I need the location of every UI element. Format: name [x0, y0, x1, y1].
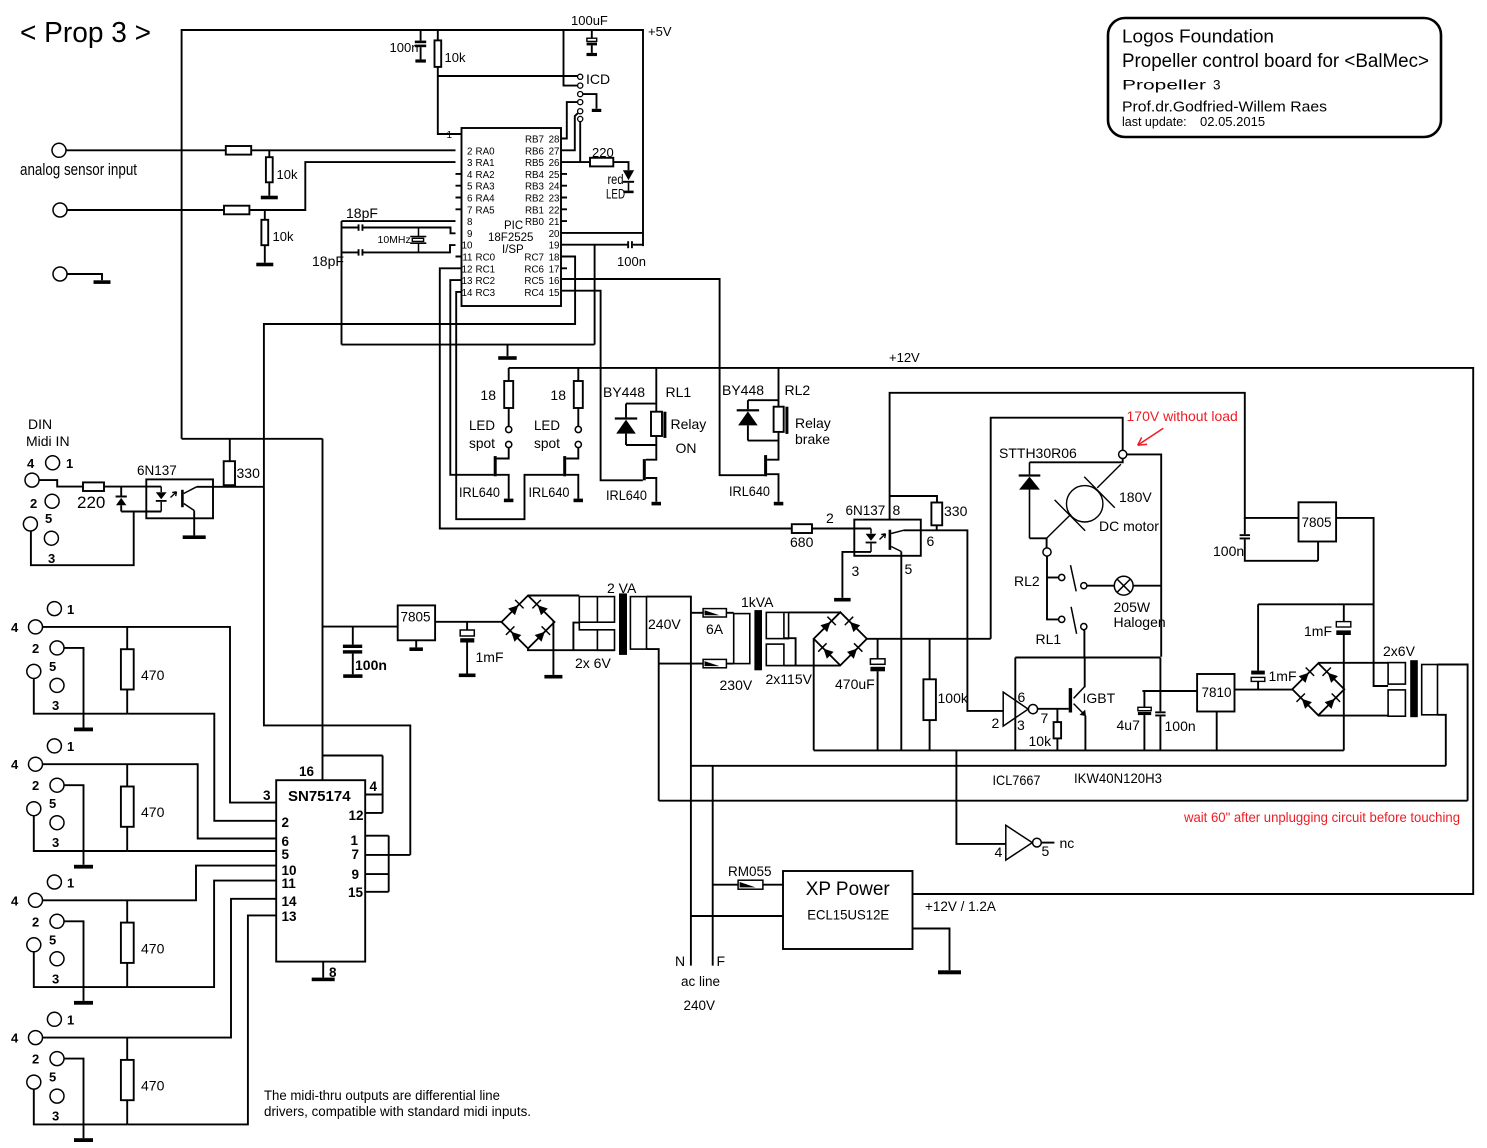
ground bar Q4 source [774, 502, 784, 506]
svg-text:ECL15US12E: ECL15US12E [807, 907, 889, 923]
wire R2 to PIC pin 3 [249, 162, 455, 210]
svg-text:7: 7 [352, 847, 360, 862]
wire PIC pin 20 Vdd [561, 232, 643, 234]
ground bar U2 emitter [183, 535, 206, 539]
svg-text:15: 15 [348, 885, 364, 900]
svg-text:ICL7667: ICL7667 [993, 772, 1041, 788]
arrow to 170V node [1138, 428, 1164, 445]
wire DIN-OUT2 pad2 to ground [64, 785, 84, 865]
svg-text:10: 10 [462, 241, 473, 252]
svg-text:1: 1 [67, 1013, 74, 1028]
svg-text:13: 13 [462, 276, 473, 287]
svg-text:25: 25 [549, 170, 560, 181]
svg-text:RC3: RC3 [476, 288, 496, 299]
resistor 10k R5 bottom stem [264, 245, 266, 263]
svg-text:2: 2 [32, 778, 39, 793]
ground bar U3 [409, 647, 423, 651]
wire fuse F1 feed [691, 612, 703, 614]
wire U2 Vo to RX net [197, 486, 264, 488]
svg-text:RC7: RC7 [524, 253, 544, 264]
wire PIC pin 13 RC2 to Q1 gate [450, 280, 494, 475]
svg-text:3: 3 [52, 1109, 59, 1124]
wire DIN-OUT3 pad5 line [34, 952, 127, 987]
svg-text:8: 8 [893, 502, 901, 518]
svg-text:180V: 180V [1119, 489, 1152, 505]
svg-text:IRL640: IRL640 [459, 484, 500, 500]
wire Q1 source to ground [497, 475, 509, 499]
ground bar DIN-OUT2 [74, 865, 93, 869]
wire MCLR to ICD pin1 [438, 75, 578, 77]
svg-text:RM055: RM055 [728, 864, 772, 879]
svg-text:100n: 100n [617, 254, 646, 269]
capacitor 4u7 top stem [1143, 691, 1145, 707]
svg-text:8: 8 [467, 217, 473, 228]
svg-text:last update:: last update: [1122, 115, 1187, 129]
svg-text:2: 2 [992, 715, 1000, 731]
capacitor 1mF C6 plates [460, 630, 474, 643]
connector DIN-OUT4 pad 4 [29, 1031, 43, 1045]
capacitor 1mF C9 plates [1336, 622, 1351, 635]
wire C4 to +5V [633, 244, 643, 246]
wire U4 pin5 down [900, 552, 902, 751]
svg-text:2 VA: 2 VA [607, 580, 637, 596]
ground bar DIN-OUT1 [74, 728, 93, 732]
resistor 10k R14 stems [1056, 709, 1058, 751]
connector DIN-OUT4 pad 3 [50, 1089, 64, 1103]
wire B2 minus to DC- rail [813, 639, 815, 751]
transformer T1 core [619, 593, 627, 655]
wire DIN-OUT1 pad5 to U9 pin 2 [127, 714, 276, 821]
connector DIN-OUT3 pad 1 [47, 875, 61, 889]
ICD pad 2 [578, 83, 583, 88]
svg-text:The midi-thru outputs are diff: The midi-thru outputs are differential l… [264, 1088, 500, 1103]
capacitor 100n C4 plates [627, 241, 633, 248]
transistor Q1 IRL640 bar [494, 456, 497, 476]
svg-text:470: 470 [141, 667, 165, 683]
ground bar U4 pin3 [834, 598, 851, 602]
svg-text:RB1: RB1 [525, 205, 544, 216]
svg-text:4u7: 4u7 [1117, 717, 1141, 733]
wire ICD pad6 to PIC pin 26 [579, 122, 581, 163]
node motor bottom [1043, 548, 1051, 556]
wire DIN-OUT1 pad5 line [34, 678, 127, 713]
svg-text:Propeller: Propeller [1122, 77, 1207, 92]
svg-text:13: 13 [282, 909, 298, 924]
wire B3 ac bottom to T3 [1318, 715, 1388, 717]
svg-text:7: 7 [467, 205, 472, 216]
svg-text:470: 470 [141, 1078, 165, 1094]
svg-text:RB4: RB4 [525, 170, 545, 181]
ground bar below PIC [498, 356, 517, 360]
opto U2 light arrow [171, 492, 177, 498]
connector DIN-OUT1 pad 4 [29, 620, 43, 634]
svg-text:11: 11 [462, 253, 472, 264]
wire lamp to motor right [1133, 585, 1161, 587]
connector DIN-OUT4 pad 1 [47, 1012, 61, 1026]
wire 18pF left rail [341, 221, 343, 345]
wire D3 bottom to RL2 coil [748, 440, 779, 442]
svg-text:21: 21 [549, 217, 560, 228]
ground bar DIN-OUT3 [74, 1001, 93, 1005]
contact RL2 blade [1071, 565, 1077, 591]
wire U4 Vo to ICL7667 input [904, 530, 1004, 711]
svg-text:+12V: +12V [889, 350, 920, 365]
diode D4 stems [120, 487, 122, 512]
svg-text:14: 14 [282, 894, 298, 909]
svg-text:18: 18 [480, 387, 496, 403]
wire B3 ac top to T3 [1318, 662, 1388, 664]
IC U1 PIC18F2525 body [462, 128, 562, 306]
svg-text:23: 23 [549, 194, 560, 205]
capacitor 100n C1 stem [420, 30, 422, 41]
wire DIN-OUT4 pad2 to ground [64, 1059, 84, 1139]
svg-text:RL1: RL1 [1036, 631, 1062, 647]
svg-text:XP Power: XP Power [806, 879, 891, 900]
wire R9 to opto LED [104, 486, 161, 488]
connector DIN-IN pad 3 [44, 531, 58, 545]
PIC unconnected pin stubs [456, 174, 568, 268]
resistor 18 R8 top stem [577, 368, 579, 381]
svg-text:Relay: Relay [795, 415, 831, 431]
svg-text:RA5: RA5 [476, 205, 496, 216]
wire U4 pin3 to ground [842, 552, 871, 598]
svg-text:3: 3 [467, 158, 473, 169]
svg-text:22: 22 [549, 205, 560, 216]
wire RM055 feed [713, 884, 738, 886]
ground bar Q1 source [504, 499, 514, 503]
wire nc inverter input [956, 750, 1005, 844]
svg-text:3: 3 [52, 835, 59, 850]
opto U2 LED [156, 487, 167, 512]
svg-text:5: 5 [905, 561, 913, 577]
svg-text:12: 12 [462, 264, 473, 275]
wire PIC pin 16 RC5 to Q4 gate [561, 279, 764, 475]
wire DIN-OUT1 pad4 to U9 pin 3 [43, 627, 277, 803]
resistor 470 body DIN-OUT1 [121, 649, 134, 689]
svg-text:27: 27 [549, 146, 560, 157]
wire B1 minus to ground [552, 621, 554, 675]
wire RL2 contact feed [1047, 577, 1059, 579]
resistor 10k R4 top stem [268, 150, 270, 157]
contact RL2 terminal b [1081, 583, 1087, 589]
connector DIN-IN pad 5 [23, 517, 37, 531]
svg-text:N: N [675, 953, 685, 969]
wire RM055 to XP [763, 884, 783, 886]
fuse F2 6A [703, 659, 726, 667]
svg-text:RA3: RA3 [476, 182, 496, 193]
wire DIN-OUT2 pad5 line [34, 816, 127, 851]
regulator U7 7805 body [1299, 502, 1337, 541]
svg-text:100n: 100n [1213, 543, 1244, 559]
transistor Q4 IRL640 bar [764, 455, 767, 476]
svg-text:240V: 240V [648, 616, 681, 632]
resistor 10k R5 body [261, 220, 268, 245]
wire DIN-OUT2 pad5 to U9 pin 5 [127, 850, 276, 852]
svg-text:2: 2 [30, 496, 37, 511]
svg-text:ac line: ac line [681, 974, 720, 989]
transistor Q3 IRL640 bar [643, 459, 646, 480]
wire node to diode/motor [1030, 459, 1123, 463]
diode BY448 D3 [737, 409, 759, 425]
resistor 18 R8 body [574, 381, 583, 408]
diode D3 top stem [747, 400, 749, 409]
IC U9 SN75174 body [276, 780, 365, 961]
capacitor 100n C1 lower stem [420, 47, 422, 59]
transformer T2 secondary top [766, 612, 788, 638]
capacitor 1mF C9 bottom stem [1343, 635, 1345, 689]
connector DIN-OUT2 pad 4 [29, 757, 43, 771]
svg-text:IRL640: IRL640 [606, 487, 647, 503]
diode D5 STTH30R06 [1019, 462, 1041, 538]
opto U4 LED [866, 529, 877, 552]
capacitor 18pF C3 plates [358, 249, 364, 255]
resistor series R2 body [224, 206, 249, 215]
svg-text:1: 1 [67, 602, 74, 617]
wire DC+ to motor top [991, 418, 1123, 639]
ICD pad 5 [578, 109, 583, 114]
svg-text:220: 220 [77, 493, 105, 512]
svg-text:2: 2 [826, 510, 834, 526]
svg-text:RL2: RL2 [785, 382, 811, 398]
wire MCLR to PIC pin 1 [438, 76, 462, 134]
diode BY448 D2 [615, 417, 637, 433]
svg-text:3: 3 [852, 563, 860, 579]
wire diode anode to motor bottom [1030, 538, 1047, 548]
transformer T1 primary [630, 597, 646, 650]
svg-text:BY448: BY448 [722, 382, 764, 398]
wire DIN-OUT3 pad2 to ground [64, 921, 84, 1001]
resistor series R1 body [226, 146, 251, 155]
svg-text:16: 16 [549, 276, 560, 287]
capacitor 1mF C8 plates [1251, 671, 1265, 682]
resistor 330 R10 body [224, 461, 235, 485]
lamp 205W halogen [1114, 576, 1133, 595]
wire PIC pin 12 RC1 [440, 268, 792, 528]
svg-text:4: 4 [370, 779, 378, 794]
wire D2 top to RL1 coil [626, 403, 656, 405]
resistor 470 stems DIN-OUT3 [126, 900, 128, 987]
wire ac line to T3 primary top [659, 800, 1468, 802]
wire D3 top to RL2 coil [748, 399, 779, 401]
svg-text:Relay: Relay [671, 416, 707, 432]
resistor 100k R11 body [923, 679, 936, 720]
svg-text:RA1: RA1 [476, 158, 495, 169]
connector analog input 3 [53, 267, 67, 281]
wire spot2 to Q2 drain [566, 448, 578, 459]
capacitor 4u7 plates [1138, 707, 1151, 715]
ground bar below 100uF [587, 53, 598, 56]
svg-text:1: 1 [67, 875, 74, 890]
resistor 10k R4 body [266, 157, 273, 182]
regulator U3 ground stem [415, 640, 417, 647]
wire R12 to U4 LED [812, 528, 871, 530]
svg-text:2: 2 [32, 914, 39, 929]
svg-text:drivers, compatible with stand: drivers, compatible with standard midi i… [264, 1104, 531, 1119]
svg-text:IRL640: IRL640 [729, 483, 770, 499]
wire RL1 coil to Q3 drain [646, 436, 657, 460]
optocoupler U2 6N137 body [146, 479, 213, 518]
capacitor 1mF C8 bottom stem [1257, 681, 1259, 689]
svg-text:2x6V: 2x6V [1383, 643, 1416, 659]
relay RL1 coil bar [663, 412, 666, 438]
wire RL2 contact to lamp [1087, 585, 1115, 587]
svg-text:6N137: 6N137 [846, 503, 886, 518]
wire +5V rail [182, 30, 643, 439]
svg-text:IGBT: IGBT [1083, 690, 1116, 706]
svg-text:2: 2 [32, 1052, 39, 1067]
wire DIN-OUT4 pad5 line [34, 1089, 127, 1124]
relay RL2 coil body [774, 407, 784, 432]
svg-text:100k: 100k [938, 690, 969, 706]
wire motor bottom to contacts [1047, 556, 1059, 619]
svg-text:5: 5 [1042, 843, 1050, 859]
wire PIC pin 8 Vss to ground rail [342, 220, 456, 222]
svg-text:5: 5 [49, 659, 56, 674]
wire XTAL1 net pin 9 [342, 228, 456, 234]
svg-text:10k: 10k [273, 229, 294, 244]
svg-text:10k: 10k [1029, 733, 1053, 749]
svg-text:6N137: 6N137 [137, 463, 177, 478]
resistor 100k R11 top stem [929, 639, 931, 680]
svg-text:RB6: RB6 [525, 146, 545, 157]
regulator U3 7805 body [398, 605, 435, 640]
svg-text:4: 4 [467, 170, 473, 181]
wire RL2 coil to +12V [778, 368, 780, 407]
wire RL1 coil to +12V [655, 368, 657, 412]
svg-text:7805: 7805 [1302, 515, 1332, 530]
wire ICD pad5 to PIC pin 27 [561, 113, 578, 150]
svg-text:12: 12 [349, 808, 364, 823]
svg-text:LED: LED [469, 417, 495, 433]
svg-text:6: 6 [927, 533, 935, 549]
wire DC+ 170V line [867, 638, 991, 640]
connector LED spot 1 terminal b [506, 441, 512, 447]
svg-text:24: 24 [549, 182, 560, 193]
wire D2 bottom to RL1 coil [626, 444, 656, 446]
connector DIN-OUT1 pad 5 [27, 664, 41, 678]
opto U4 transistor [889, 530, 904, 552]
capacitor 4u7 bottom stem [1143, 715, 1145, 750]
connector analog input 1 [52, 143, 66, 157]
capacitor 470uF bottom stem [877, 671, 879, 750]
svg-text:1: 1 [446, 130, 452, 141]
info box Logos Foundation [1108, 18, 1441, 137]
svg-text:2x 6V: 2x 6V [575, 655, 611, 671]
transformer T1 secondary bottom [579, 622, 614, 650]
svg-text:170V without load: 170V without load [1127, 408, 1238, 424]
fuse F3 RM055 [738, 880, 763, 889]
svg-text:18pF: 18pF [346, 205, 378, 221]
svg-text:IRL640: IRL640 [529, 484, 570, 500]
connector DIN-OUT1 pad 2 [50, 641, 64, 655]
transistor Q5 IGBT [1069, 687, 1086, 717]
svg-text:5: 5 [49, 796, 56, 811]
ground bar below R5 [256, 263, 273, 267]
svg-text:ICD: ICD [586, 71, 610, 87]
relay RL2 coil bar [785, 407, 788, 434]
connector DIN-IN pad 1 [46, 456, 60, 470]
resistor 330 R10 top stem [229, 439, 231, 461]
wire R1 to PIC pin 2 [251, 149, 455, 151]
wire U5 Vcc/Gnd riser [1014, 658, 1016, 751]
ground bar ICD [592, 109, 602, 112]
svg-text:470: 470 [141, 940, 165, 956]
svg-text:17: 17 [549, 264, 560, 275]
svg-text:wait 60" after unplugging circ: wait 60" after unplugging circuit before… [1183, 809, 1460, 825]
resistor 10k R3 top stem [437, 30, 439, 40]
wire T1 center tap [573, 623, 579, 651]
svg-text:RC6: RC6 [524, 264, 544, 275]
svg-text:15: 15 [549, 288, 560, 299]
svg-text:RC4: RC4 [524, 288, 544, 299]
optocoupler U4 6N137 body [854, 520, 921, 556]
wire +5V riser to SN75174 [322, 439, 324, 780]
connector DIN-OUT2 pad 3 [50, 816, 64, 830]
wire R6 to LED [613, 162, 628, 170]
svg-text:9: 9 [467, 229, 472, 240]
svg-text:brake: brake [795, 431, 830, 447]
inverter U8 spare [1006, 825, 1042, 860]
wire nc inverter output [1041, 842, 1054, 844]
diode D2 bottom stem [625, 434, 627, 445]
ground bar U9 pin 8 [312, 978, 335, 982]
wire Q5 emitter to DC- rail [1084, 716, 1086, 751]
wire ICD pad2 to +5V [564, 30, 578, 86]
wire T2 to B2 top [789, 611, 841, 613]
capacitor 100uF plates [587, 38, 597, 45]
connector DIN-OUT4 pad 5 [27, 1075, 41, 1089]
contact RL1 blade [1071, 607, 1077, 634]
wire PIC pin 19 Vss [561, 245, 628, 345]
resistor 10k R5 top stem [264, 210, 266, 220]
svg-text:5: 5 [49, 932, 56, 947]
wire RL2 coil to Q4 drain [767, 432, 778, 460]
svg-text:+5V: +5V [648, 24, 672, 39]
wire F line [712, 766, 714, 966]
resistor 18 R8 bottom stem [577, 408, 579, 426]
wire fuse F2 feed [659, 663, 703, 665]
connector DIN-OUT2 pad 5 [27, 802, 41, 816]
resistor 680 R12 body [792, 524, 812, 533]
wire T2 center tap [784, 638, 796, 665]
capacitor 100n C1 plates [415, 41, 426, 48]
wire DIN-OUT4 pad4 to U9 pin 14 [43, 899, 277, 1038]
svg-text:10MHz: 10MHz [378, 234, 411, 246]
svg-text:RB2: RB2 [525, 194, 544, 205]
wire N line to XP [691, 915, 783, 917]
svg-text:3: 3 [48, 551, 55, 566]
wire T1 primary bottom [647, 649, 659, 801]
ground bar below R4 [261, 196, 278, 200]
svg-text:nc: nc [1060, 835, 1075, 851]
wire Q2 source to ground [566, 475, 578, 499]
IC U9 pin 8 ground stem [322, 962, 324, 978]
connector DIN-OUT2 pad 1 [47, 739, 61, 753]
svg-text:2x115V: 2x115V [766, 671, 813, 687]
wire U2 emitter to ground [193, 511, 195, 536]
module PSU XP Power body [783, 871, 913, 949]
connector DIN-OUT3 pad 5 [27, 938, 41, 952]
capacitor 100n C7 plates [1155, 711, 1165, 716]
wire ac line to T3 primary bottom [691, 765, 1446, 767]
wire T1 primary top to fuses [647, 597, 691, 966]
wire T3 center tap to 7805 [1336, 518, 1388, 686]
connector DIN-IN pad 4 [25, 473, 39, 487]
wire fuse F2 to T2 [726, 663, 733, 665]
contact RL2 terminal a [1059, 574, 1065, 580]
svg-text:28: 28 [549, 135, 560, 146]
svg-text:20: 20 [549, 229, 560, 240]
